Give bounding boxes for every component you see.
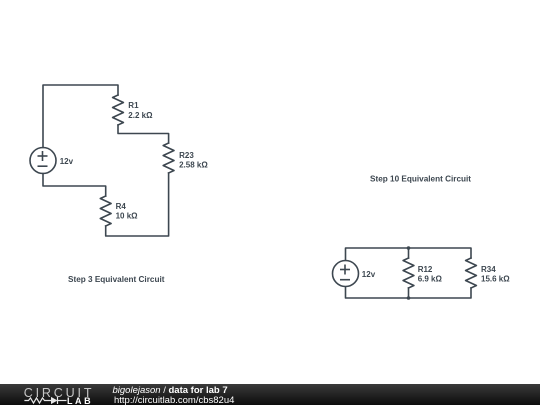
svg-text:12v: 12v xyxy=(60,157,74,166)
svg-text:15.6 kΩ: 15.6 kΩ xyxy=(481,274,510,283)
svg-text:2.58 kΩ: 2.58 kΩ xyxy=(179,161,208,170)
svg-text:R23: R23 xyxy=(179,151,194,160)
svg-text:R1: R1 xyxy=(128,101,139,110)
svg-text:LAB: LAB xyxy=(67,396,93,405)
svg-text:R34: R34 xyxy=(481,265,496,274)
svg-text:2.2 kΩ: 2.2 kΩ xyxy=(128,111,153,120)
svg-text:R4: R4 xyxy=(116,202,127,211)
svg-text:R12: R12 xyxy=(418,265,433,274)
svg-text:10 kΩ: 10 kΩ xyxy=(116,212,139,221)
svg-text:12v: 12v xyxy=(362,270,376,279)
svg-text:Step 3 Equivalent Circuit: Step 3 Equivalent Circuit xyxy=(68,275,165,284)
svg-text:Step 10 Equivalent Circuit: Step 10 Equivalent Circuit xyxy=(370,174,471,183)
svg-text:6.9 kΩ: 6.9 kΩ xyxy=(418,274,443,283)
